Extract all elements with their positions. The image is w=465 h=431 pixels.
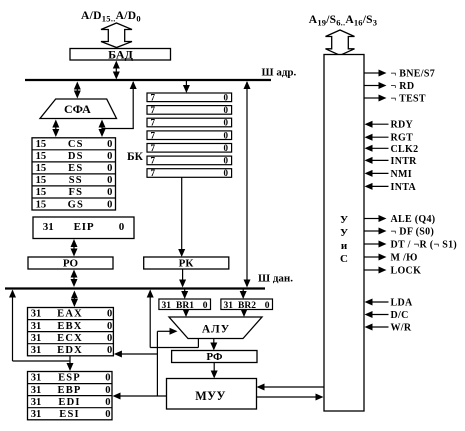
svg-text:15: 15 xyxy=(36,199,47,210)
svg-text:31: 31 xyxy=(31,397,42,408)
svg-text:7: 7 xyxy=(151,143,156,153)
output signal TEST xyxy=(365,94,426,105)
svg-text:0: 0 xyxy=(224,130,229,140)
svg-text:31: 31 xyxy=(43,221,54,233)
register file ESP EBP EDI ESI xyxy=(28,372,113,420)
svg-text:¬ RD: ¬ RD xyxy=(391,81,415,92)
wire EDX block to ESP block xyxy=(67,356,74,371)
svg-text:0: 0 xyxy=(107,139,112,150)
svg-text:ESI: ESI xyxy=(59,409,80,420)
input signal INTA xyxy=(365,182,417,193)
wire RK to data bus xyxy=(179,269,186,288)
wire MUU to UUiS xyxy=(257,394,324,401)
svg-text:15: 15 xyxy=(36,163,47,174)
wire BR2 to ALU xyxy=(241,309,248,317)
bidirectional bus arrow to UUiS xyxy=(326,30,355,55)
svg-text:7: 7 xyxy=(151,168,156,178)
output signal LOCK xyxy=(365,266,422,277)
bidirectional bus arrow to BAD xyxy=(101,23,132,48)
svg-text:С: С xyxy=(340,253,348,265)
svg-text:ALE (Q4): ALE (Q4) xyxy=(391,214,436,225)
block UUiS (control and synchronization unit) xyxy=(324,55,364,412)
output signal BNE/S7 xyxy=(365,69,436,80)
wire ALU output to data bus xyxy=(147,290,199,348)
svg-text:0: 0 xyxy=(224,118,229,128)
input signal LDA xyxy=(365,298,413,309)
svg-text:7: 7 xyxy=(151,105,156,115)
wire UUiS to MUU xyxy=(257,384,325,391)
svg-text:0: 0 xyxy=(224,92,229,102)
svg-text:EBX: EBX xyxy=(57,321,82,332)
block MUU (microprogram control unit) xyxy=(167,379,257,410)
svg-text:РО: РО xyxy=(63,258,79,270)
wire internal bus to ALU input xyxy=(157,328,177,396)
wire data bus to BR2 xyxy=(240,290,247,300)
svg-text:31: 31 xyxy=(31,333,42,344)
input signal RDY xyxy=(365,120,414,131)
svg-text:0: 0 xyxy=(107,321,112,332)
svg-text:GS: GS xyxy=(68,199,84,210)
svg-text:0: 0 xyxy=(105,397,110,408)
svg-text:МУУ: МУУ xyxy=(195,389,226,403)
svg-text:0: 0 xyxy=(224,156,229,166)
wire RO to data bus (double arrow) xyxy=(71,270,78,288)
svg-text:DT / ¬R (¬ S1): DT / ¬R (¬ S1) xyxy=(391,240,458,251)
svg-text:0: 0 xyxy=(105,409,110,420)
output signal M/IO xyxy=(365,253,418,264)
wire address bus down to segment arrow xyxy=(102,81,137,129)
block ALU xyxy=(169,317,262,339)
wire internal bus to EDX xyxy=(114,351,157,358)
wire RF to MUU xyxy=(211,363,218,379)
input signal INTR xyxy=(365,156,418,167)
svg-text:0: 0 xyxy=(224,143,229,153)
segment register file CS DS ES SS FS GS xyxy=(32,138,116,211)
output signal DT/R xyxy=(365,240,458,251)
svg-text:EBP: EBP xyxy=(57,385,81,396)
wire ALU to RF xyxy=(210,339,217,351)
wire SFA to segment registers right (double arrow) xyxy=(99,120,106,138)
svg-text:CS: CS xyxy=(68,139,84,150)
svg-text:31: 31 xyxy=(31,409,42,420)
svg-text:ESP: ESP xyxy=(58,373,81,384)
svg-text:0: 0 xyxy=(203,301,208,311)
input signal D/C xyxy=(365,310,409,321)
wire data bus to BR1 xyxy=(181,290,188,300)
svg-text:¬ TEST: ¬ TEST xyxy=(391,94,426,105)
svg-text:7: 7 xyxy=(151,130,156,140)
block RF (flag register) xyxy=(172,351,257,364)
wire SFA to segment registers left (double arrow) xyxy=(52,120,59,138)
svg-text:ES: ES xyxy=(68,163,83,174)
svg-text:EAX: EAX xyxy=(57,309,83,320)
svg-text:31: 31 xyxy=(162,301,172,311)
svg-text:7: 7 xyxy=(151,118,156,128)
svg-text:0: 0 xyxy=(107,175,112,186)
svg-text:0: 0 xyxy=(107,151,112,162)
wire between address bus and data bus xyxy=(244,81,251,288)
wire queue to RK xyxy=(178,177,185,257)
svg-text:0: 0 xyxy=(105,385,110,396)
svg-text:CLK2: CLK2 xyxy=(391,144,419,155)
data bus line xyxy=(5,287,265,289)
wire BAD to address bus (double arrow) xyxy=(113,61,120,80)
block SFA (address former) xyxy=(40,99,117,119)
svg-text:АЛУ: АЛУ xyxy=(202,324,230,336)
svg-text:СФА: СФА xyxy=(64,102,91,116)
svg-text:NMI: NMI xyxy=(391,169,412,180)
wire MUU to EBP xyxy=(113,393,167,400)
svg-text:БАД: БАД xyxy=(108,48,133,62)
svg-text:0: 0 xyxy=(107,345,112,356)
svg-text:31: 31 xyxy=(31,309,42,320)
input signal RGT xyxy=(365,133,414,144)
block RO (operand register) xyxy=(28,257,113,270)
svg-text:0: 0 xyxy=(224,105,229,115)
svg-text:0: 0 xyxy=(107,187,112,198)
svg-text:31: 31 xyxy=(224,301,234,311)
svg-text:Ш дан.: Ш дан. xyxy=(258,273,293,285)
svg-text:LOCK: LOCK xyxy=(391,266,422,277)
address bus line xyxy=(25,79,271,81)
svg-text:У: У xyxy=(340,227,348,239)
svg-text:0: 0 xyxy=(265,301,270,311)
svg-text:РФ: РФ xyxy=(206,351,223,363)
svg-text:0: 0 xyxy=(107,309,112,320)
input signal W/R xyxy=(365,323,412,334)
svg-text:EDX: EDX xyxy=(57,345,83,356)
svg-text:EDI: EDI xyxy=(58,397,80,408)
svg-text:31: 31 xyxy=(31,321,42,332)
output signal RD xyxy=(365,81,415,92)
svg-text:FS: FS xyxy=(68,187,83,198)
svg-text:D/C: D/C xyxy=(391,310,409,321)
svg-text:Ш адр.: Ш адр. xyxy=(262,67,297,79)
wire address bus to SFA (double arrow) xyxy=(74,82,81,99)
register file EAX EBX ECX EDX xyxy=(28,308,114,356)
svg-text:0: 0 xyxy=(107,333,112,344)
svg-text:31: 31 xyxy=(31,345,42,356)
svg-text:INTR: INTR xyxy=(391,156,418,167)
svg-text:SS: SS xyxy=(69,175,83,186)
block RK (command register) xyxy=(144,257,229,270)
svg-text:БК: БК xyxy=(127,151,144,163)
svg-text:¬ DF (S0): ¬ DF (S0) xyxy=(391,227,435,238)
svg-text:0: 0 xyxy=(107,199,112,210)
svg-text:15: 15 xyxy=(36,187,47,198)
svg-text:RGT: RGT xyxy=(391,133,414,144)
svg-text:RDY: RDY xyxy=(391,120,414,131)
output signal DF xyxy=(365,227,435,238)
wire data bus to EAX file (double arrow) xyxy=(71,291,78,308)
svg-text:0: 0 xyxy=(105,373,110,384)
svg-text:INTA: INTA xyxy=(391,182,417,193)
svg-text:15: 15 xyxy=(36,139,47,150)
svg-text:0: 0 xyxy=(119,221,125,233)
svg-text:LDA: LDA xyxy=(391,298,413,309)
svg-text:ECX: ECX xyxy=(57,333,83,344)
register BR1 xyxy=(159,299,211,311)
input signal CLK2 xyxy=(365,144,419,155)
svg-text:и: и xyxy=(341,240,348,252)
svg-text:EIP: EIP xyxy=(74,221,95,233)
wire BR1 to ALU xyxy=(183,309,190,317)
prefetch queue registers 7..0 xyxy=(147,92,232,178)
register EIP xyxy=(33,217,134,239)
svg-text:DS: DS xyxy=(68,151,84,162)
svg-text:¬ BNE/S7: ¬ BNE/S7 xyxy=(391,69,436,80)
svg-text:7: 7 xyxy=(151,92,156,102)
output signal ALE xyxy=(365,214,436,225)
svg-text:0: 0 xyxy=(107,163,112,174)
svg-text:У: У xyxy=(340,214,348,226)
register BR2 xyxy=(221,299,273,311)
svg-text:0: 0 xyxy=(224,168,229,178)
svg-text:W/R: W/R xyxy=(391,323,412,334)
svg-text:РК: РК xyxy=(179,258,194,270)
wire data bus down left side to ESP feed xyxy=(9,290,70,362)
wire EIP to RO (double arrow) xyxy=(71,239,78,257)
svg-text:31: 31 xyxy=(31,373,42,384)
input signal NMI xyxy=(365,169,412,180)
svg-text:M /Ю: M /Ю xyxy=(391,253,418,264)
svg-text:7: 7 xyxy=(151,156,156,166)
block BAD (address/data buffer) xyxy=(70,48,171,62)
svg-text:15: 15 xyxy=(36,151,47,162)
svg-text:31: 31 xyxy=(31,385,42,396)
svg-text:15: 15 xyxy=(36,175,47,186)
wire address bus to queue xyxy=(183,81,190,93)
